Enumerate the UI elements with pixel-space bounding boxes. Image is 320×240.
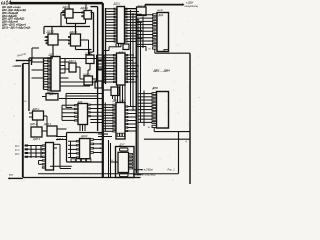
svg-text:ДВ1 ... ДВ4: ДВ1 ... ДВ4: [153, 69, 171, 73]
svg-text:ДД3: ДД3: [48, 52, 55, 56]
svg-text:5: 5: [153, 106, 154, 108]
svg-text:2: 2: [153, 18, 154, 20]
svg-text:ДД1.2: ДД1.2: [46, 30, 55, 34]
svg-text:10: 10: [153, 122, 155, 124]
svg-text:синхронизц: синхронизц: [185, 5, 199, 8]
svg-text:17↗: 17↗: [15, 149, 20, 152]
svg-text:ДД2.1: ДД2.1: [80, 6, 89, 10]
svg-text:ДД5.1: ДД5.1: [113, 3, 122, 6]
svg-text:7: 7: [153, 34, 154, 36]
svg-text:2: 2: [153, 97, 154, 99]
svg-text:1: 1: [153, 93, 154, 95]
svg-text:7: 7: [153, 113, 154, 115]
svg-text:в (УВ2в): в (УВ2в): [144, 170, 153, 172]
svg-text:16↗: 16↗: [15, 145, 20, 148]
svg-text:Рис. 1: Рис. 1: [168, 169, 176, 172]
svg-text:вч (УВ2 выс): вч (УВ2 выс): [142, 175, 156, 177]
svg-text:9: 9: [153, 119, 154, 121]
svg-text:ДВ13—ДВ14 кВДрОлДб: ДВ13—ДВ14 кВДрОлДб: [2, 26, 31, 29]
svg-text:ша 6: ша 6: [157, 9, 163, 12]
svg-text:8: 8: [153, 38, 154, 40]
svg-text:4: 4: [153, 103, 154, 105]
svg-text:ДД10: ДД10: [80, 135, 88, 138]
svg-text:10: 10: [153, 44, 155, 46]
svg-text:18↗: 18↗: [15, 153, 20, 156]
svg-text:ДД6: ДД6: [158, 14, 164, 17]
svg-text:9: 9: [153, 41, 154, 43]
svg-text:ДД5.2: ДД5.2: [29, 123, 38, 126]
svg-text:6: 6: [153, 109, 154, 111]
svg-text:5: 5: [153, 28, 154, 30]
svg-text:3: 3: [153, 21, 154, 23]
svg-text:ДД2.2: ДД2.2: [69, 30, 78, 34]
svg-text:4: 4: [153, 24, 154, 26]
svg-text:8: 8: [153, 116, 154, 118]
svg-text:3: 3: [153, 100, 154, 102]
svg-text:ДД5.4: ДД5.4: [32, 138, 41, 141]
svg-text:1: 1: [153, 15, 154, 17]
svg-text:к ДВУ: к ДВУ: [186, 1, 194, 5]
svg-text:ДУ9: ДУ9: [152, 86, 159, 90]
svg-text:6: 6: [153, 31, 154, 33]
